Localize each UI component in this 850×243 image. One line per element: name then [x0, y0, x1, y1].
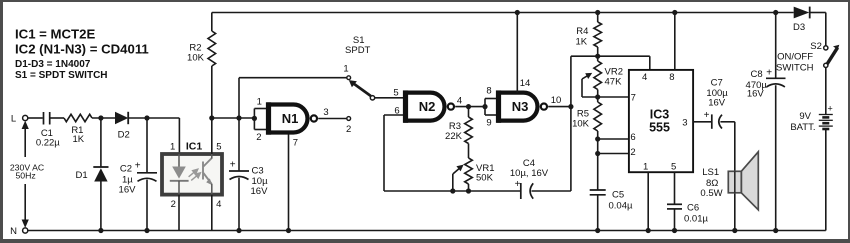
resistor R5 — [594, 102, 602, 131]
wire pin2 link — [598, 153, 629, 155]
S1 contact 2 — [347, 117, 351, 121]
gate N2 bubble — [448, 104, 454, 110]
svg-text:ON/OFF: ON/OFF — [777, 52, 813, 63]
wire ground rail — [28, 230, 826, 232]
svg-text:C8: C8 — [751, 69, 763, 80]
svg-text:10: 10 — [551, 95, 562, 106]
diode D2 — [115, 112, 128, 124]
wire N3 pin14 — [516, 13, 518, 93]
opto IC1 box — [162, 154, 222, 195]
svg-text:+: + — [766, 67, 772, 78]
resistor R2 — [211, 13, 213, 32]
svg-text:IC1: IC1 — [186, 141, 203, 153]
wire top rail — [212, 12, 794, 14]
switch S2 bottom contact — [824, 63, 828, 67]
svg-text:50Hz: 50Hz — [15, 171, 35, 181]
opto light arrows — [189, 169, 201, 180]
svg-text:0.01µ: 0.01µ — [684, 213, 708, 224]
svg-text:2: 2 — [346, 124, 351, 135]
svg-text:16V: 16V — [119, 185, 137, 196]
wire IC1 pin4 to ground rail — [211, 195, 213, 231]
node C2 ground — [144, 228, 149, 233]
wire R1 to D2 — [92, 117, 115, 119]
VR2 wiper arrow — [581, 79, 583, 97]
terminal L — [23, 115, 28, 120]
switch S2 lever — [827, 48, 838, 65]
border frame — [0, 0, 850, 2]
svg-text:9V: 9V — [799, 111, 811, 122]
wire rail corner to S2 — [825, 13, 827, 46]
op-gate N2 — [406, 93, 445, 121]
svg-text:4: 4 — [457, 96, 462, 107]
resistor R1 — [64, 114, 92, 121]
node pin14 on rail — [515, 10, 520, 15]
node R2-IC1pin5 — [209, 115, 214, 120]
capacitor C7 — [711, 114, 713, 128]
svg-text:50K: 50K — [476, 173, 494, 184]
node D1 ground — [98, 228, 103, 233]
svg-text:6: 6 — [630, 132, 635, 143]
mains arrow up — [24, 126, 26, 157]
node C2 junction — [144, 115, 149, 120]
node C3 ground — [236, 228, 241, 233]
node pin1 ground — [646, 228, 651, 233]
svg-text:2: 2 — [256, 132, 261, 143]
svg-text:LS1: LS1 — [702, 167, 719, 178]
svg-text:C5: C5 — [612, 190, 624, 201]
VR1 wiper arrow — [452, 174, 454, 191]
svg-text:BATT.: BATT. — [790, 122, 815, 133]
svg-text:N1: N1 — [282, 111, 299, 126]
wire riser to top link — [570, 56, 572, 191]
wire 555 pin3 to C7 — [693, 121, 712, 123]
wire C1 to R1 — [51, 117, 65, 119]
node N3 out riser — [568, 104, 573, 109]
svg-text:2: 2 — [630, 147, 635, 158]
node C8 ground — [773, 228, 778, 233]
svg-text:555: 555 — [649, 121, 670, 135]
switch S1 pole — [370, 96, 374, 100]
svg-text:10K: 10K — [187, 53, 205, 64]
wire S2 to battery — [825, 68, 827, 115]
svg-text:3: 3 — [323, 107, 328, 118]
svg-text:5: 5 — [393, 87, 398, 98]
svg-text:S2: S2 — [810, 41, 822, 52]
switch S2 top contact — [824, 46, 828, 50]
resistor R4 — [597, 13, 599, 23]
wire IC1 pin2 to ground rail — [178, 195, 180, 231]
svg-text:16V: 16V — [747, 88, 765, 99]
capacitor C1 — [43, 112, 45, 125]
svg-text:16V: 16V — [251, 186, 269, 197]
diode D3 — [794, 7, 810, 19]
node R4 bottom — [595, 54, 600, 59]
capacitor C8 — [775, 13, 777, 79]
svg-text:0.04µ: 0.04µ — [609, 201, 633, 212]
mains arrow down — [24, 184, 26, 223]
svg-text:C6: C6 — [687, 203, 699, 214]
wire C4 to riser — [532, 190, 571, 192]
battery BATT 9V — [819, 114, 833, 116]
svg-text:C7: C7 — [711, 77, 723, 88]
svg-text:D3: D3 — [793, 22, 805, 33]
svg-text:9: 9 — [486, 118, 491, 129]
op-gate N1 — [269, 105, 308, 133]
gate N3 bubble — [541, 104, 547, 110]
svg-text:5: 5 — [216, 142, 221, 153]
wire N2 out to N3 — [455, 106, 485, 108]
wire wiper to pin7 — [582, 96, 629, 98]
speaker LS1 — [741, 152, 758, 210]
svg-text:D1-D3 = 1N4007: D1-D3 = 1N4007 — [15, 59, 91, 70]
svg-text:SPDT: SPDT — [345, 45, 371, 56]
wire pin6 link — [598, 138, 629, 140]
svg-text:5: 5 — [671, 161, 676, 172]
svg-text:1K: 1K — [575, 36, 587, 47]
node speaker ground — [732, 228, 737, 233]
svg-text:SWITCH: SWITCH — [776, 62, 814, 73]
node C8 rail — [773, 10, 778, 15]
wire to S1 contact1 — [238, 78, 240, 118]
wire 555 pin1 to ground — [647, 172, 649, 230]
wire C7 to speaker — [720, 121, 734, 123]
svg-text:3: 3 — [682, 117, 687, 128]
variable resistor VR2 — [594, 61, 602, 90]
wire N3 out to riser — [548, 106, 571, 108]
svg-text:D2: D2 — [118, 130, 130, 141]
svg-text:2: 2 — [171, 199, 176, 210]
wire S1 pole to N2 pin5 — [375, 97, 406, 99]
node C5 ground — [595, 228, 600, 233]
capacitor C2 — [146, 118, 148, 173]
svg-text:IC1 = MCT2E: IC1 = MCT2E — [15, 26, 95, 41]
svg-text:+: + — [827, 103, 832, 113]
node VR2-R5-pin7 — [595, 94, 600, 99]
svg-text:14: 14 — [520, 78, 531, 89]
svg-text:N: N — [10, 226, 17, 237]
svg-text:1: 1 — [170, 142, 175, 153]
gate N1 bubble — [311, 115, 317, 121]
wire N2 pin6 feedback — [384, 114, 406, 116]
svg-text:+: + — [704, 110, 710, 121]
wire L to C1 — [28, 117, 43, 119]
svg-text:IC3: IC3 — [650, 108, 670, 122]
node VR1 arrow bottom — [450, 188, 455, 193]
svg-text:4: 4 — [642, 72, 647, 83]
node C3-S1 junction — [236, 115, 241, 120]
svg-text:1K: 1K — [72, 134, 84, 145]
svg-text:22K: 22K — [445, 131, 463, 142]
node R5 bottom pin6 — [595, 136, 600, 141]
variable resistor VR1 — [465, 158, 473, 184]
svg-text:7: 7 — [631, 93, 636, 104]
capacitor C6 — [674, 172, 676, 204]
switch S1 contact 1 — [347, 76, 351, 80]
node pin2 junction — [595, 151, 600, 156]
wire feedback rail — [384, 190, 521, 192]
switch S1 lever — [354, 84, 371, 97]
capacitor C5 — [597, 154, 599, 191]
terminal N — [23, 228, 28, 233]
svg-text:0.22µ: 0.22µ — [36, 138, 60, 149]
svg-text:1: 1 — [343, 64, 348, 75]
svg-text:L: L — [11, 114, 16, 125]
svg-text:1: 1 — [257, 97, 262, 108]
opto LED — [178, 154, 180, 167]
svg-text:10K: 10K — [572, 119, 590, 130]
svg-text:C3: C3 — [252, 166, 264, 177]
wire N1 pin7 to ground — [288, 135, 290, 231]
node R3 top — [466, 104, 471, 109]
svg-text:IC2 (N1-N3) = CD4011: IC2 (N1-N3) = CD4011 — [15, 41, 149, 56]
capacitor C3 — [238, 118, 240, 171]
svg-text:47K: 47K — [605, 77, 623, 88]
opto phototransistor — [203, 158, 212, 184]
wire pin6-pin2 link — [597, 139, 599, 154]
svg-text:0.5W: 0.5W — [700, 188, 722, 199]
svg-text:D1: D1 — [76, 170, 88, 181]
node VR1 bottom — [466, 188, 471, 193]
gate N3 input bracket — [484, 99, 486, 116]
svg-text:+: + — [515, 179, 521, 190]
svg-text:N2: N2 — [419, 99, 436, 114]
svg-text:N3: N3 — [512, 99, 529, 114]
node N1 input junction — [252, 116, 257, 121]
node R1-D2-D1 junction — [98, 115, 103, 120]
wire battery to ground rail — [825, 129, 827, 231]
wire node to N1 inputs — [212, 117, 255, 119]
wire N1 out to S1 contact2 — [318, 118, 346, 120]
svg-text:+: + — [135, 161, 141, 172]
svg-text:4: 4 — [216, 199, 221, 210]
node R4 top rail — [595, 10, 600, 15]
node pin8 rail — [672, 10, 677, 15]
svg-text:16V: 16V — [708, 97, 726, 108]
diode D1 — [100, 118, 102, 167]
node N1 pin7 ground — [286, 228, 291, 233]
node N3 input junction — [482, 104, 487, 109]
node C6 ground — [672, 228, 677, 233]
wire D2 to IC1 pin1 corner — [129, 117, 179, 119]
resistor R3 — [468, 107, 470, 117]
svg-text:10µ, 16V: 10µ, 16V — [510, 168, 549, 179]
op-gate N3 — [499, 93, 538, 121]
svg-text:7: 7 — [293, 137, 298, 148]
wire 555 pin8 to rail — [674, 13, 676, 70]
svg-text:8: 8 — [486, 85, 491, 96]
svg-text:S1 = SPDT SWITCH: S1 = SPDT SWITCH — [15, 70, 108, 81]
svg-text:1: 1 — [643, 161, 648, 172]
capacitor C4 — [520, 183, 522, 199]
svg-text:C2: C2 — [120, 164, 132, 175]
gate N1 input bracket — [253, 109, 255, 130]
IC 555 box — [629, 70, 693, 172]
svg-text:8: 8 — [669, 72, 674, 83]
svg-text:+: + — [230, 159, 236, 170]
